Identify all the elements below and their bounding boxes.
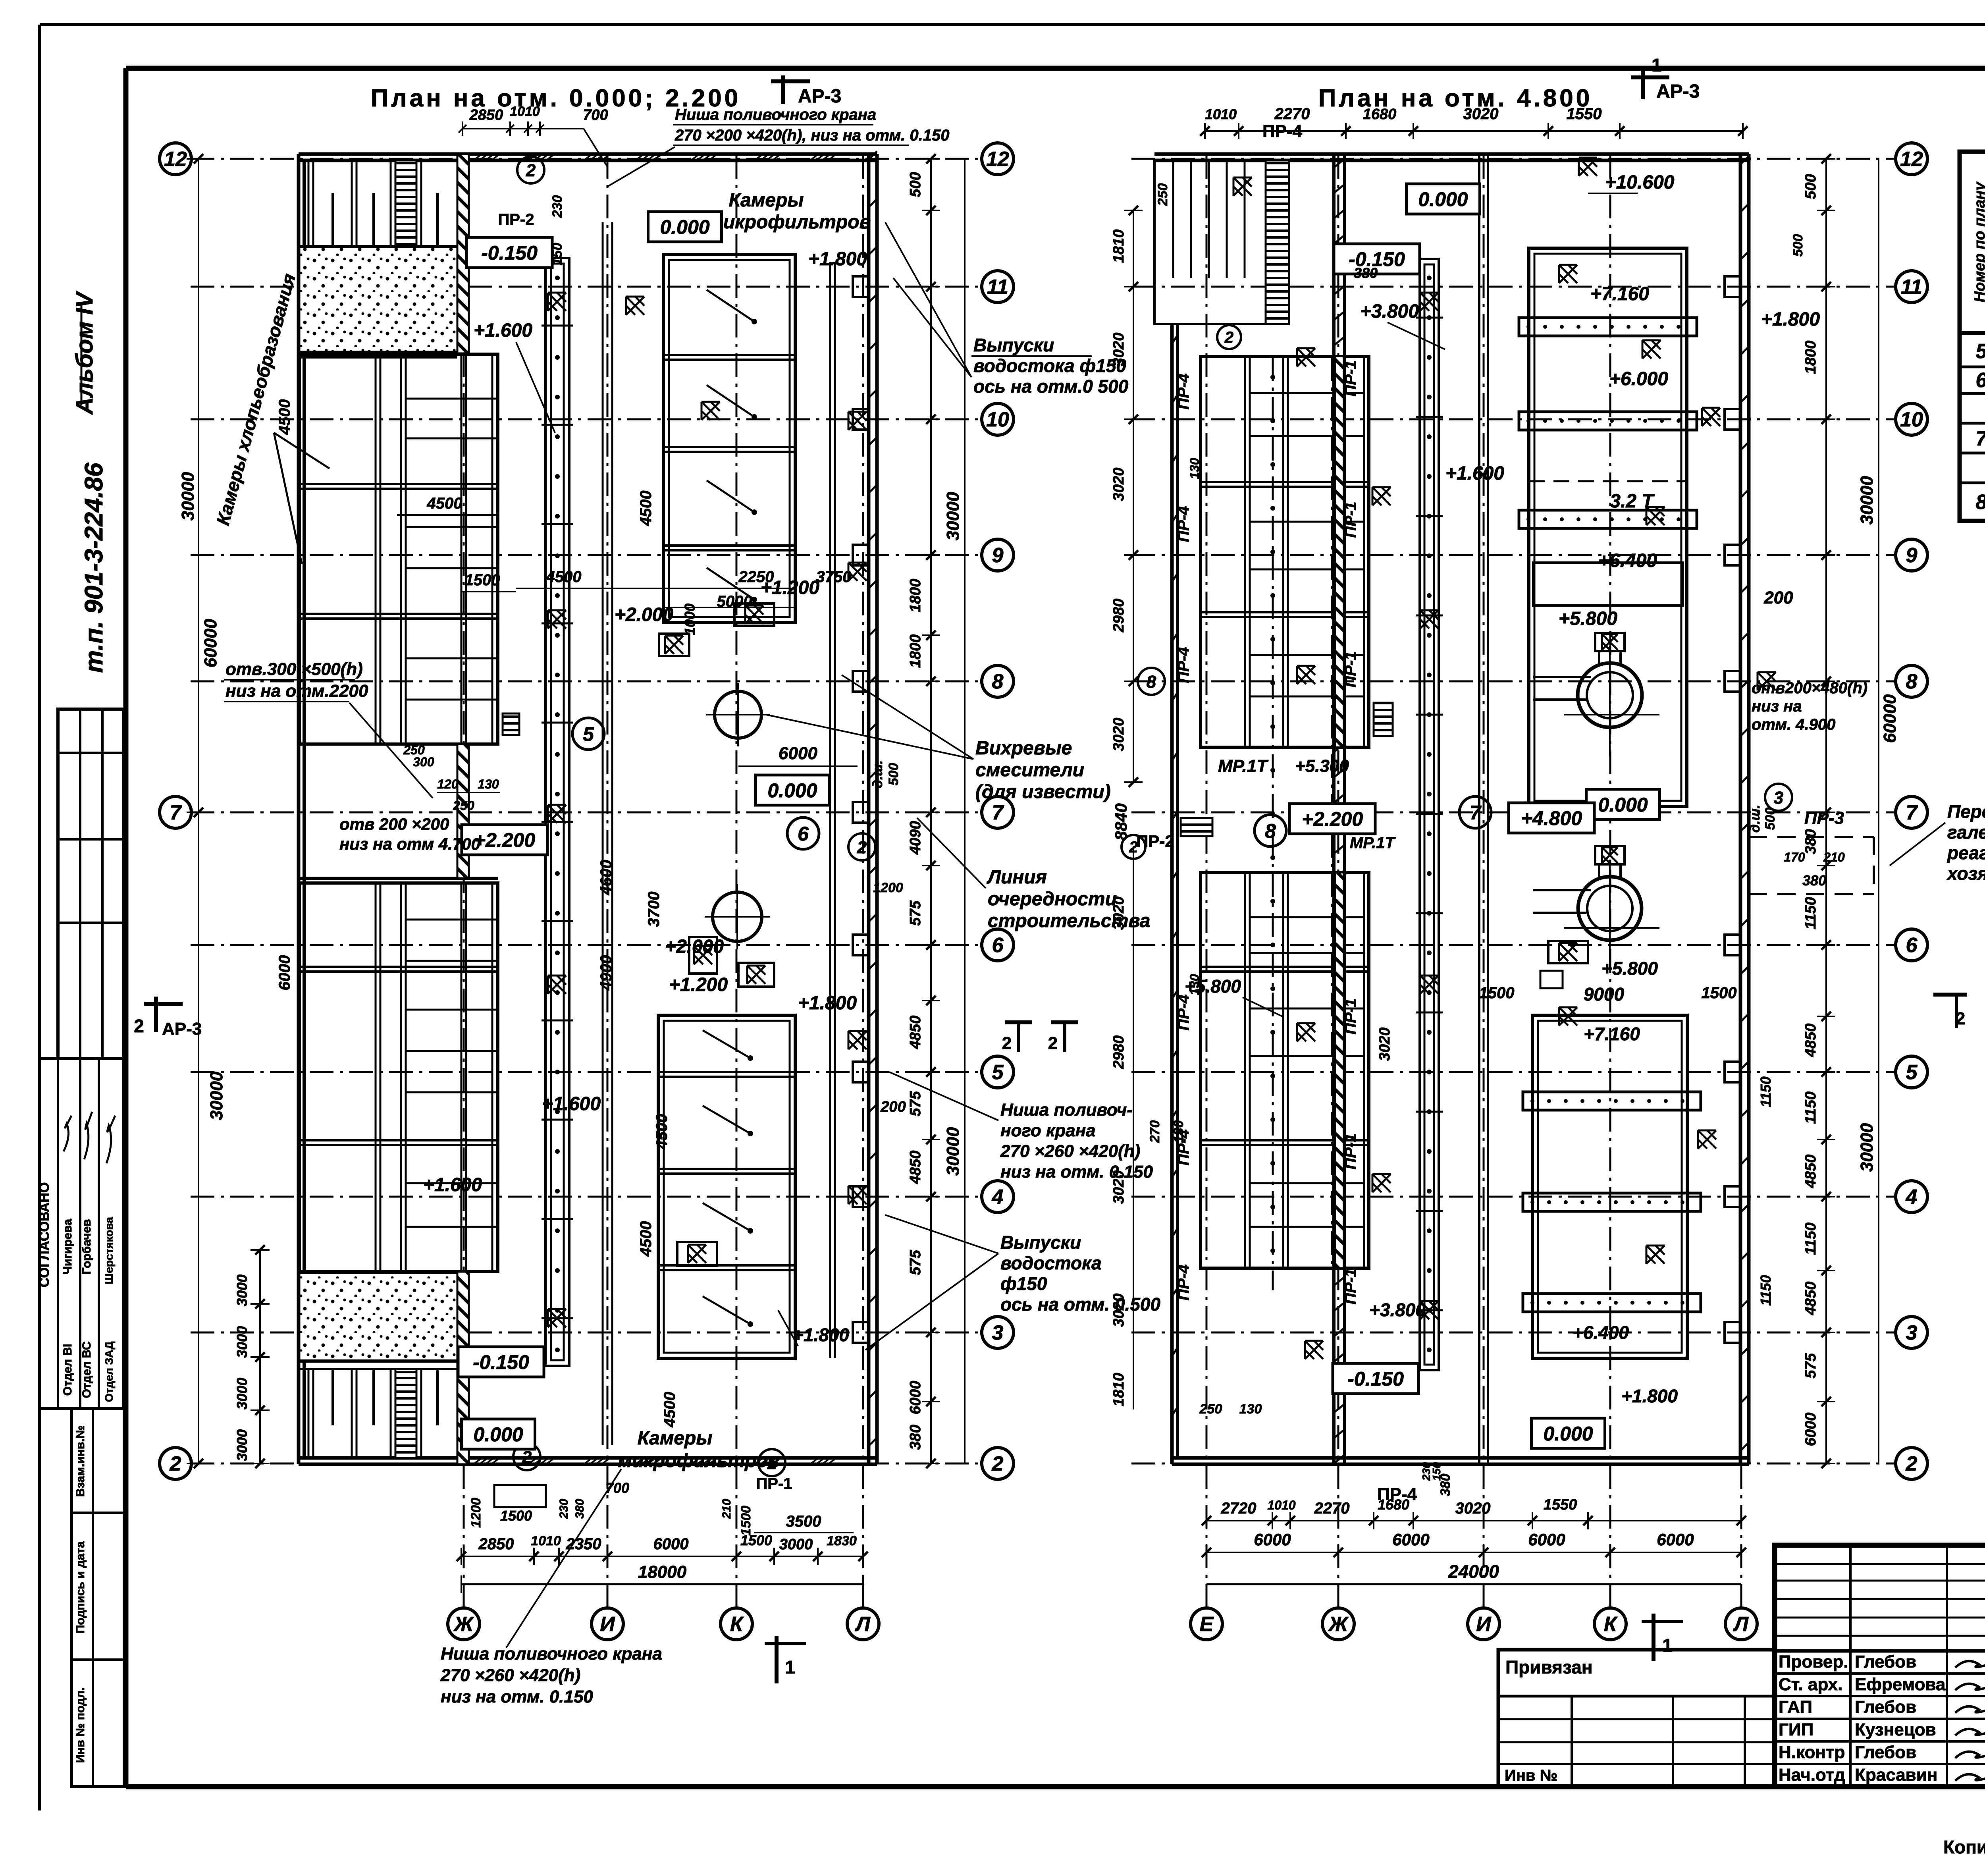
outer border left [38, 25, 41, 1810]
svg-text:ПР-4: ПР-4 [1175, 1264, 1192, 1300]
svg-text:380: 380 [573, 1499, 586, 1519]
svg-text:12: 12 [164, 148, 187, 171]
hatch mark [1702, 408, 1720, 426]
svg-text:6: 6 [1906, 934, 1918, 957]
svg-text:Вихревые: Вихревые [975, 738, 1072, 759]
tank lower [1578, 877, 1642, 940]
svg-text:4500: 4500 [546, 568, 582, 586]
svg-text:+1.800: +1.800 [798, 993, 857, 1014]
svg-text:0.000: 0.000 [473, 1423, 523, 1446]
axis row 2 left plan [191, 1463, 981, 1465]
svg-text:1: 1 [785, 1657, 795, 1677]
svg-text:+1.600: +1.600 [542, 1093, 601, 1114]
axis bubble 3 [982, 1317, 1014, 1348]
svg-text:2: 2 [1906, 1452, 1918, 1475]
axis bubble 12 [982, 143, 1014, 175]
svg-text:АР-3: АР-3 [162, 1019, 202, 1039]
elevation +2.200 [462, 825, 547, 855]
svg-text:2: 2 [526, 161, 536, 180]
svg-text:-0.150: -0.150 [1347, 1368, 1404, 1390]
svg-text:Переходная: Переходная [1947, 801, 1985, 822]
svg-text:3000: 3000 [234, 1429, 250, 1461]
svg-text:1830: 1830 [827, 1533, 857, 1548]
svg-text:Л: Л [854, 1613, 871, 1636]
hatch mark [688, 1245, 706, 1263]
hatched band on top wall [473, 154, 482, 160]
svg-text:3020: 3020 [1455, 1500, 1491, 1517]
svg-text:т.п. 901-3-224.86: т.п. 901-3-224.86 [79, 463, 108, 673]
svg-text:очередности: очередности [988, 889, 1117, 910]
hatch mark [626, 297, 644, 315]
svg-text:Ниша поливочного крана: Ниша поливочного крана [675, 106, 876, 123]
svg-text:4850: 4850 [1802, 1155, 1819, 1189]
axis bubble 9 [1896, 539, 1927, 571]
axis bubble 4 [1896, 1181, 1927, 1213]
svg-text:10: 10 [1900, 408, 1923, 431]
svg-text:Взам.инв.№: Взам.инв.№ [74, 1425, 87, 1497]
wall pilasters right plan [1725, 276, 1740, 297]
svg-text:4500: 4500 [637, 491, 655, 526]
top mini dim chain [463, 128, 564, 129]
monorail axis МР.1Т [1272, 357, 1274, 1290]
opening tag 1 bottom [758, 1449, 785, 1476]
svg-text:130: 130 [478, 777, 499, 791]
svg-text:+5.300: +5.300 [1295, 756, 1349, 776]
svg-text:4500: 4500 [637, 1221, 655, 1257]
top-left comb block right plan [1154, 160, 1289, 324]
svg-text:1: 1 [1662, 1635, 1673, 1656]
elevation -0.150 [1334, 244, 1420, 274]
svg-text:1500: 1500 [1479, 984, 1515, 1002]
svg-text:2: 2 [992, 1452, 1004, 1475]
stippled concrete zone top [299, 247, 457, 352]
axis row 11 left plan [191, 286, 981, 288]
svg-text:ПР-2: ПР-2 [1136, 832, 1174, 850]
svg-text:+7.160: +7.160 [1584, 1024, 1640, 1044]
svg-text:ПР-1: ПР-1 [1342, 1268, 1359, 1304]
svg-text:2980: 2980 [1110, 1035, 1127, 1070]
elevation 0.000 [1407, 184, 1480, 214]
svg-text:1810: 1810 [1110, 229, 1127, 263]
small stairs right plan [1181, 818, 1212, 836]
svg-text:Выпуски: Выпуски [1000, 1232, 1081, 1253]
svg-text:170: 170 [1784, 850, 1805, 864]
svg-text:2270: 2270 [1314, 1500, 1350, 1517]
svg-text:130: 130 [1187, 458, 1202, 479]
svg-text:отв.300 ×500(h): отв.300 ×500(h) [225, 659, 363, 679]
hatch mark [548, 976, 566, 994]
axis col Е right plan [1206, 155, 1208, 1607]
svg-text:2350: 2350 [566, 1535, 601, 1553]
svg-text:Е: Е [1200, 1613, 1214, 1636]
svg-text:Горбачев: Горбачев [80, 1219, 93, 1274]
axis bubble 10 [1896, 403, 1927, 435]
svg-text:+1.800: +1.800 [1761, 309, 1820, 330]
svg-text:12: 12 [1900, 148, 1923, 171]
axis bubble 4 [982, 1181, 1014, 1213]
svg-text:смесители: смесители [975, 760, 1084, 781]
hatched rail wall lower [1336, 873, 1343, 1268]
svg-text:1200: 1200 [873, 880, 903, 895]
svg-text:2: 2 [1048, 1033, 1058, 1053]
svg-text:11: 11 [987, 276, 1008, 299]
tag 2 right plan middle [1122, 835, 1145, 859]
svg-text:5000: 5000 [717, 593, 752, 610]
svg-text:1150: 1150 [1758, 1275, 1774, 1305]
svg-text:ПР-4: ПР-4 [1175, 994, 1192, 1030]
svg-text:водостока: водостока [1000, 1253, 1102, 1273]
svg-text:1550: 1550 [1567, 105, 1602, 123]
svg-text:4500: 4500 [276, 399, 293, 435]
axis bubble К [721, 1608, 752, 1640]
room tag 7 [1459, 796, 1491, 828]
svg-text:+1.600: +1.600 [474, 320, 532, 341]
axis row 10 left plan [191, 418, 981, 420]
hatch mark [848, 1031, 867, 1049]
svg-text:1550: 1550 [1544, 1496, 1577, 1513]
svg-text:30000: 30000 [943, 492, 963, 540]
svg-text:3: 3 [992, 1321, 1004, 1344]
svg-text:3020: 3020 [1110, 468, 1127, 501]
axis col К right plan [1609, 155, 1611, 1607]
svg-text:300: 300 [413, 755, 434, 769]
svg-text:ось на отм. 0.500: ось на отм. 0.500 [1000, 1294, 1160, 1315]
svg-text:+2.200: +2.200 [1302, 808, 1363, 830]
opening tag 2 bottom [513, 1443, 540, 1470]
flocculation chambers top comb [308, 160, 310, 246]
svg-text:8: 8 [992, 670, 1004, 693]
svg-text:270: 270 [1147, 1120, 1162, 1143]
svg-text:12: 12 [986, 148, 1009, 171]
platform edge line [829, 262, 831, 1358]
hatch mark [1372, 1174, 1391, 1192]
svg-text:0.000: 0.000 [767, 779, 817, 802]
svg-text:Выпуски: Выпуски [973, 335, 1054, 355]
room tag 6 [787, 817, 819, 849]
svg-text:Номер по плану: Номер по плану [1972, 181, 1985, 303]
svg-text:низ на отм. 0.150: низ на отм. 0.150 [1000, 1162, 1153, 1182]
tank upper [1578, 663, 1642, 727]
elevation 0.000 [462, 1419, 535, 1449]
elevation 0.000 [648, 212, 722, 242]
svg-text:4500: 4500 [427, 495, 463, 512]
axis bubble Ж [448, 1608, 480, 1640]
svg-text:380: 380 [1354, 265, 1378, 281]
svg-text:Глебов: Глебов [1855, 1743, 1916, 1762]
hatch mark [747, 966, 765, 984]
svg-text:Нач.отд: Нач.отд [1779, 1765, 1845, 1785]
svg-text:+1.600: +1.600 [423, 1174, 482, 1195]
svg-text:1800: 1800 [907, 634, 924, 668]
axis bubble 10 [982, 403, 1014, 435]
axis row 4 right plan [1131, 1196, 1895, 1198]
svg-text:СОГЛАСОВАНО: СОГЛАСОВАНО [37, 1182, 52, 1288]
dashed line hall [1529, 480, 1687, 482]
svg-text:8: 8 [1906, 670, 1918, 693]
svg-text:И: И [1476, 1613, 1492, 1636]
svg-text:7: 7 [992, 801, 1004, 824]
svg-text:3: 3 [1906, 1321, 1918, 1344]
axis row 5 right plan [1131, 1071, 1895, 1073]
svg-text:3: 3 [1774, 788, 1783, 808]
privyazan box [1498, 1650, 1775, 1787]
svg-text:130: 130 [1171, 1120, 1186, 1143]
svg-text:6000: 6000 [907, 1381, 924, 1415]
svg-text:водостока ф150: водостока ф150 [973, 355, 1126, 376]
sidebar lower boxes [71, 1409, 124, 1787]
svg-text:1010: 1010 [510, 104, 540, 119]
elevation -0.150 [466, 237, 552, 268]
svg-text:Глебов: Глебов [1855, 1652, 1916, 1672]
svg-text:+2.000: +2.000 [665, 936, 724, 957]
svg-text:+1.800: +1.800 [1621, 1386, 1678, 1406]
svg-text:150: 150 [1430, 1462, 1443, 1481]
hatch mark [1420, 976, 1438, 994]
svg-text:+6.400: +6.400 [1598, 550, 1657, 571]
axis bubble 5 [982, 1056, 1014, 1088]
svg-text:30000: 30000 [1857, 1123, 1877, 1172]
svg-text:270 ×260 ×420(h): 270 ×260 ×420(h) [440, 1666, 580, 1685]
axis bubble И [1468, 1608, 1499, 1640]
left plan right wall (hatched) [867, 154, 871, 1464]
svg-text:3750: 3750 [816, 568, 852, 586]
svg-text:30000: 30000 [178, 472, 198, 521]
svg-text:1150: 1150 [1802, 1091, 1819, 1124]
opening tag 2 top [517, 156, 544, 183]
svg-text:5: 5 [583, 723, 594, 745]
svg-text:1500: 1500 [738, 1506, 754, 1536]
axis bubble 2 [160, 1448, 191, 1479]
axis bubble 7 [160, 796, 191, 828]
hatched wall segment lower [457, 1272, 469, 1464]
room tag 8 [1255, 815, 1286, 846]
svg-text:30000: 30000 [943, 1127, 963, 1176]
svg-text:ПР-1: ПР-1 [756, 1475, 792, 1492]
hatch mark [1646, 507, 1665, 525]
svg-text:Ниша поливочного крана: Ниша поливочного крана [441, 1644, 662, 1664]
axis col И left plan [607, 155, 609, 1607]
svg-text:+5.800: +5.800 [1601, 958, 1658, 979]
svg-text:Ефремова: Ефремова [1855, 1675, 1946, 1694]
svg-text:ного крана: ного крана [1000, 1121, 1096, 1140]
svg-text:1010: 1010 [531, 1533, 561, 1548]
axis row 9 right plan [1131, 554, 1895, 556]
wall pilasters left plan [853, 276, 869, 297]
svg-text:(для извести): (для извести) [975, 781, 1111, 802]
right plan right wall hatched [1739, 154, 1742, 1464]
microfilter chamber lower [658, 1015, 795, 1358]
left plan top wall [299, 152, 877, 156]
settling cell column upper [1201, 357, 1369, 747]
hatch mark [548, 1309, 566, 1327]
right plan left edge [1170, 324, 1174, 1464]
axis row 3 right plan [1131, 1332, 1895, 1334]
hatch mark [1297, 666, 1315, 684]
svg-text:6000: 6000 [1528, 1530, 1565, 1549]
axis bubble 9 [982, 539, 1014, 571]
svg-text:2: 2 [857, 838, 867, 857]
hatch mark [745, 605, 763, 624]
svg-text:2: 2 [1002, 1033, 1012, 1053]
svg-text:230: 230 [550, 195, 565, 218]
svg-text:микрофильтров: микрофильтров [709, 212, 871, 233]
elevation 0.000 [756, 775, 829, 805]
svg-text:210: 210 [1823, 850, 1845, 864]
axis row 5 left plan [191, 1071, 981, 1073]
svg-text:+4.800: +4.800 [1521, 807, 1582, 829]
axis row 12 right plan [1131, 158, 1895, 160]
dim 4500 inside grid [397, 514, 498, 516]
svg-text:250: 250 [453, 798, 474, 813]
svg-text:0.000: 0.000 [1543, 1423, 1593, 1445]
spec table frame [1960, 152, 1985, 521]
stair top-left [395, 160, 416, 245]
svg-text:Отдел ВI: Отдел ВI [61, 1344, 74, 1396]
hatch mark [1559, 1007, 1577, 1026]
svg-text:ПР-1: ПР-1 [1342, 1133, 1359, 1169]
svg-text:0.000: 0.000 [1418, 188, 1468, 210]
svg-text:1800: 1800 [907, 579, 924, 613]
svg-text:Камеры: Камеры [638, 1428, 713, 1449]
svg-text:270 ×260 ×420(h): 270 ×260 ×420(h) [1000, 1141, 1140, 1161]
svg-text:-0.150: -0.150 [481, 242, 538, 264]
hatch mark [1420, 293, 1438, 311]
wall on axis И right plan [1478, 154, 1480, 1464]
axis bubble К [1594, 1608, 1626, 1640]
svg-text:2850: 2850 [478, 1535, 514, 1553]
stair right of column [1374, 703, 1393, 736]
section mark AP-3 left [781, 75, 785, 104]
svg-text:микрофильтров: микрофильтров [618, 1450, 779, 1471]
svg-text:6000: 6000 [653, 1535, 689, 1553]
svg-text:7: 7 [170, 801, 182, 824]
svg-text:500: 500 [1790, 234, 1806, 257]
flocculation cell grid upper [299, 354, 498, 744]
svg-text:0.000: 0.000 [660, 216, 709, 238]
axis row 2 right plan [1131, 1463, 1895, 1465]
axis row 7 left plan [191, 812, 981, 814]
svg-text:24000: 24000 [1448, 1561, 1499, 1582]
svg-text:2980: 2980 [1110, 599, 1127, 633]
svg-text:И: И [600, 1613, 615, 1636]
svg-text:3.2 Т: 3.2 Т [1610, 491, 1655, 512]
axis bubble 3 [1896, 1317, 1927, 1348]
hatch mark [1646, 1246, 1665, 1264]
svg-text:500: 500 [907, 172, 924, 197]
svg-text:7: 7 [1976, 427, 1985, 450]
svg-text:Красавин: Красавин [1855, 1765, 1937, 1785]
tag 2 right plan top [1217, 325, 1241, 349]
svg-text:2250: 2250 [738, 568, 774, 586]
svg-text:МР.1Т: МР.1Т [1218, 756, 1268, 776]
svg-text:3000: 3000 [779, 1536, 813, 1553]
axis row 12 left plan [191, 158, 981, 160]
svg-text:отм. 4.900: отм. 4.900 [1752, 716, 1835, 733]
right plan bottom wall [1172, 1456, 1749, 1460]
svg-text:ось на отм.0 500: ось на отм.0 500 [973, 376, 1129, 397]
signatures title block [1955, 1660, 1985, 1668]
svg-text:1500: 1500 [465, 571, 500, 589]
svg-text:3020: 3020 [1110, 1294, 1127, 1327]
svg-text:3020: 3020 [1463, 105, 1499, 123]
svg-text:2: 2 [1224, 329, 1233, 346]
svg-text:10: 10 [986, 408, 1009, 431]
svg-text:2850: 2850 [469, 107, 503, 123]
svg-text:+1.800: +1.800 [793, 1325, 849, 1345]
section mark 2 right of right plan [1933, 993, 1967, 997]
svg-text:+2.200: +2.200 [474, 829, 536, 851]
svg-text:низ на отм 4.700: низ на отм 4.700 [339, 835, 480, 853]
axis bubble Л [847, 1608, 879, 1640]
svg-text:низ на отм.2200: низ на отм.2200 [225, 681, 368, 701]
axis row 11 right plan [1131, 286, 1895, 288]
svg-text:4500: 4500 [653, 1114, 671, 1150]
elevation -0.150 [458, 1347, 544, 1377]
signatures squiggles [64, 1116, 71, 1151]
svg-text:5: 5 [1976, 340, 1985, 363]
svg-text:6000: 6000 [1657, 1530, 1694, 1549]
axis bubble Л [1725, 1608, 1757, 1640]
hatch mark [848, 1186, 867, 1204]
svg-text:1200: 1200 [468, 1498, 484, 1528]
svg-text:7: 7 [1470, 802, 1482, 824]
section marks 2 (left plan) [1005, 1020, 1032, 1024]
flocculation cell grid lower [299, 883, 498, 1272]
svg-text:8: 8 [1265, 820, 1276, 842]
svg-text:МР.1Т: МР.1Т [1350, 834, 1396, 852]
hatch mark [848, 563, 867, 581]
svg-text:250: 250 [1199, 1402, 1222, 1417]
axis bubble Ж [1322, 1608, 1354, 1640]
svg-text:250: 250 [1155, 183, 1170, 206]
axis col Л left plan [862, 155, 864, 1607]
svg-text:6000: 6000 [276, 955, 293, 991]
+6.400 inner rect [1533, 563, 1682, 605]
svg-text:4500: 4500 [661, 1392, 678, 1428]
hatch mark [694, 946, 712, 964]
svg-text:1150: 1150 [1802, 1222, 1819, 1255]
svg-text:380: 380 [1802, 872, 1826, 889]
svg-text:+1.200: +1.200 [669, 974, 728, 995]
svg-text:3020: 3020 [1110, 897, 1127, 930]
svg-text:отв200×480(h): отв200×480(h) [1752, 679, 1867, 697]
svg-text:3020: 3020 [1110, 718, 1127, 752]
hatch mark [665, 636, 683, 654]
svg-text:ф150: ф150 [1000, 1273, 1047, 1294]
hatch mark [1305, 1341, 1323, 1359]
svg-text:4850: 4850 [907, 1151, 924, 1185]
hatched band on bottom wall [473, 1458, 482, 1464]
svg-text:4600: 4600 [597, 860, 615, 896]
monorail strip right plan [1420, 259, 1439, 1370]
svg-text:1010: 1010 [1205, 106, 1237, 122]
svg-text:Отдел ЗАД: Отдел ЗАД [103, 1342, 115, 1402]
svg-text:1000: 1000 [682, 603, 698, 635]
svg-text:отв 200 ×200: отв 200 ×200 [339, 815, 449, 833]
svg-text:ПР-4: ПР-4 [1175, 647, 1192, 683]
hatch mark [1233, 177, 1252, 196]
svg-text:+1.800: +1.800 [808, 249, 867, 270]
svg-text:Ж: Ж [1328, 1613, 1349, 1636]
svg-text:500: 500 [886, 763, 901, 786]
svg-text:Инв № подл.: Инв № подл. [74, 1687, 87, 1763]
svg-text:700: 700 [583, 107, 608, 123]
svg-text:3000: 3000 [234, 1326, 250, 1358]
svg-text:4: 4 [1906, 1186, 1918, 1209]
svg-text:3020: 3020 [1110, 1170, 1127, 1204]
svg-text:План на отм. 4.800: План на отм. 4.800 [1318, 85, 1592, 112]
svg-text:К: К [730, 1613, 744, 1636]
